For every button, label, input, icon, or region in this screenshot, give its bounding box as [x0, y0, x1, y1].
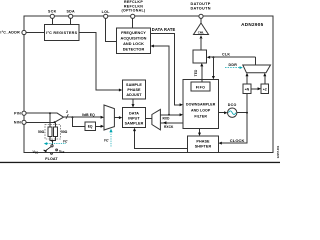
wire center tap to switch	[51, 141, 53, 145]
wire RXCK	[160, 122, 183, 124]
arrowhead DDR into mux	[240, 66, 243, 69]
phase shifter box	[188, 136, 219, 153]
switch pivot	[51, 145, 53, 147]
svg-text:I²C_ADDR: I²C_ADDR	[0, 30, 20, 34]
svg-text:RXCK: RXCK	[164, 125, 174, 129]
wire PIN junction to left resistor	[49, 113, 51, 127]
wire RXD	[160, 114, 180, 116]
svg-text:DCO: DCO	[228, 103, 237, 107]
input mux	[104, 105, 114, 130]
arrowhead CLK into retimer	[207, 56, 210, 59]
wire SCK to I2C registers	[51, 19, 53, 25]
bus slash 2	[66, 114, 68, 119]
wire NIN to buffer	[26, 121, 54, 123]
svg-text:SDA: SDA	[66, 9, 75, 13]
svg-text:50Ω: 50Ω	[38, 130, 45, 134]
wire LOL to frequency acquisition block	[106, 19, 117, 42]
bottom rule	[0, 162, 280, 163]
wire DCO junction up to /N	[246, 94, 248, 113]
svg-text:ACQUISITION: ACQUISITION	[121, 36, 147, 40]
wire mux to CLK	[255, 57, 257, 65]
svg-text:(OPTIONAL): (OPTIONAL)	[122, 9, 146, 13]
pin SCK	[48, 9, 57, 18]
node termination center tap	[51, 140, 53, 142]
pin PIN	[14, 111, 26, 116]
wire data rate to downsampler	[151, 34, 181, 105]
svg-text:2: 2	[66, 110, 68, 114]
svg-text:I²C: I²C	[104, 138, 109, 142]
svg-text:DATA: DATA	[129, 111, 139, 115]
contact VCC	[43, 150, 47, 153]
wire downsampler to phase shifter	[199, 129, 201, 134]
wire EQ to mux	[95, 125, 101, 127]
node EQ branch junction	[72, 116, 74, 118]
wire I2C registers to sample phase adjust	[79, 33, 120, 91]
svg-text:RXD: RXD	[163, 116, 171, 120]
svg-text:FLOAT: FLOAT	[45, 157, 58, 161]
svg-text:12157-001: 12157-001	[276, 145, 280, 158]
pin DATOUTP/DATOUTN	[190, 2, 210, 18]
wire sample phase adjust to data input sampler	[132, 99, 134, 105]
node PIN junction	[49, 112, 51, 114]
wire TED fifo to retimer	[201, 66, 203, 82]
svg-text:DETECTOR: DETECTOR	[123, 47, 145, 51]
divider /2	[261, 84, 269, 94]
output retimer flip-flop	[193, 50, 207, 63]
wire CLK junction down to downsampler	[212, 57, 214, 76]
downsampler and loop filter box	[183, 79, 218, 128]
wire 0dB EQ path to mux	[73, 116, 102, 118]
pin LOL	[102, 10, 111, 18]
arrowhead into sample phase adjust	[119, 89, 122, 92]
arrowhead CLOCK into phase shifter	[218, 142, 221, 145]
node CLK junction	[212, 56, 214, 58]
wire CLOCK to phase shifter	[221, 113, 247, 143]
pin REFCLKP/REFCLKN	[122, 0, 146, 18]
wire buffer converge bottom	[55, 117, 64, 122]
wire retimer to CML	[200, 39, 202, 50]
switch arm	[46, 147, 51, 151]
node NIN junction	[54, 121, 56, 123]
pin SDA	[66, 9, 75, 18]
svg-text:LOL: LOL	[102, 10, 111, 14]
wire PIN to buffer	[26, 112, 57, 114]
svg-text:TED: TED	[194, 69, 198, 76]
wire /2 to mux	[264, 76, 266, 85]
wire /N to mux	[246, 76, 248, 85]
wire I2C_ADDR to I2C registers	[26, 32, 44, 34]
divider /N	[243, 84, 251, 94]
I2C registers box	[45, 25, 80, 41]
EQ box	[85, 122, 95, 130]
wire data input sampler to rx mux	[146, 118, 152, 120]
svg-text:CLOCK: CLOCK	[230, 138, 245, 143]
svg-text:EQ: EQ	[88, 125, 93, 129]
svg-text:PIN: PIN	[14, 112, 21, 116]
wire downsampler to DCO	[218, 112, 224, 114]
contact VEE	[56, 149, 58, 151]
data input sampler box	[122, 108, 145, 128]
wire SDA to I2C registers	[70, 19, 72, 25]
svg-text:CLK: CLK	[222, 52, 230, 56]
wire RXD to frequency acquisition input	[153, 46, 169, 115]
wire mux to data input sampler	[114, 117, 119, 119]
pin NIN	[14, 120, 26, 124]
svg-text:÷N: ÷N	[245, 88, 250, 92]
svg-text:I²C REGISTERS: I²C REGISTERS	[46, 31, 77, 35]
FIFO box	[191, 82, 210, 91]
arrowhead into frequency acquisition	[151, 45, 154, 48]
wire REFCLK to frequency acquisition block	[132, 19, 134, 29]
svg-text:DOWNSAMPLER: DOWNSAMPLER	[186, 102, 216, 106]
clock mux	[243, 65, 271, 73]
arrowhead into downsampler top	[212, 76, 215, 79]
svg-text:PHASE: PHASE	[196, 140, 210, 144]
svg-text:ADN2905: ADN2905	[241, 22, 263, 27]
wire I2C control to switch teal	[47, 143, 66, 145]
svg-text:DATOUTN: DATOUTN	[190, 7, 210, 11]
resistor 50ohm right	[54, 127, 58, 137]
svg-text:÷2: ÷2	[263, 88, 267, 92]
svg-text:AND LOCK: AND LOCK	[123, 42, 144, 46]
svg-text:FREQUENCY: FREQUENCY	[121, 31, 146, 35]
svg-text:50Ω: 50Ω	[61, 130, 68, 134]
wire branch to EQ box	[73, 117, 86, 126]
svg-text:SCK: SCK	[48, 9, 57, 13]
svg-text:DATA RATE: DATA RATE	[152, 27, 176, 32]
svg-text:CML: CML	[198, 31, 205, 35]
dashed termination box	[45, 125, 61, 140]
svg-text:DATOUTP: DATOUTP	[191, 2, 211, 6]
wire buffer converge top	[57, 113, 63, 117]
wire DCO to junction	[237, 112, 247, 114]
svg-text:ADJUST: ADJUST	[126, 93, 142, 97]
wire buffer output	[64, 116, 73, 118]
frequency acquisition and lock detector box	[117, 28, 151, 54]
wire CLK	[210, 56, 256, 58]
svg-text:FIFO: FIFO	[196, 85, 205, 89]
resistor 50ohm left	[48, 127, 52, 137]
wire resistor bottoms common node	[50, 137, 56, 141]
rx demux trapezoid	[152, 109, 161, 129]
wire DDR dashed teal	[225, 67, 240, 69]
wire /N to /2	[251, 88, 258, 90]
svg-text:DDR: DDR	[229, 63, 238, 67]
node RXD junction	[168, 114, 170, 116]
contact FLOAT	[51, 153, 53, 155]
wire I2C control to mux teal	[110, 132, 112, 146]
arrowhead into CML	[200, 35, 203, 38]
svg-text:SHIFTER: SHIFTER	[195, 145, 212, 149]
CML buffer U1	[194, 19, 209, 35]
sample phase adjust box	[122, 80, 145, 99]
DCO oscillator	[228, 103, 237, 118]
svg-text:FILTER: FILTER	[194, 114, 207, 118]
svg-text:REFCLKN: REFCLKN	[124, 4, 143, 8]
wire NIN junction to right resistor	[55, 122, 57, 127]
pin I2C_ADDR	[0, 30, 26, 34]
svg-text:NIN: NIN	[14, 121, 21, 125]
svg-text:PHASE: PHASE	[127, 88, 141, 92]
chip outline ADN2905	[24, 16, 273, 153]
svg-text:I²C: I²C	[63, 139, 68, 143]
arrowhead data rate into downsampler	[180, 103, 183, 106]
svg-text:AND LOOP: AND LOOP	[191, 108, 211, 112]
svg-text:SAMPLER: SAMPLER	[125, 121, 144, 125]
svg-text:SAMPLE: SAMPLE	[126, 83, 142, 87]
node DCO output junction	[246, 112, 248, 114]
svg-text:INPUT: INPUT	[128, 116, 140, 120]
wire phase shifter to data input sampler clock	[135, 131, 188, 149]
svg-text:0dB EQ: 0dB EQ	[82, 113, 95, 117]
